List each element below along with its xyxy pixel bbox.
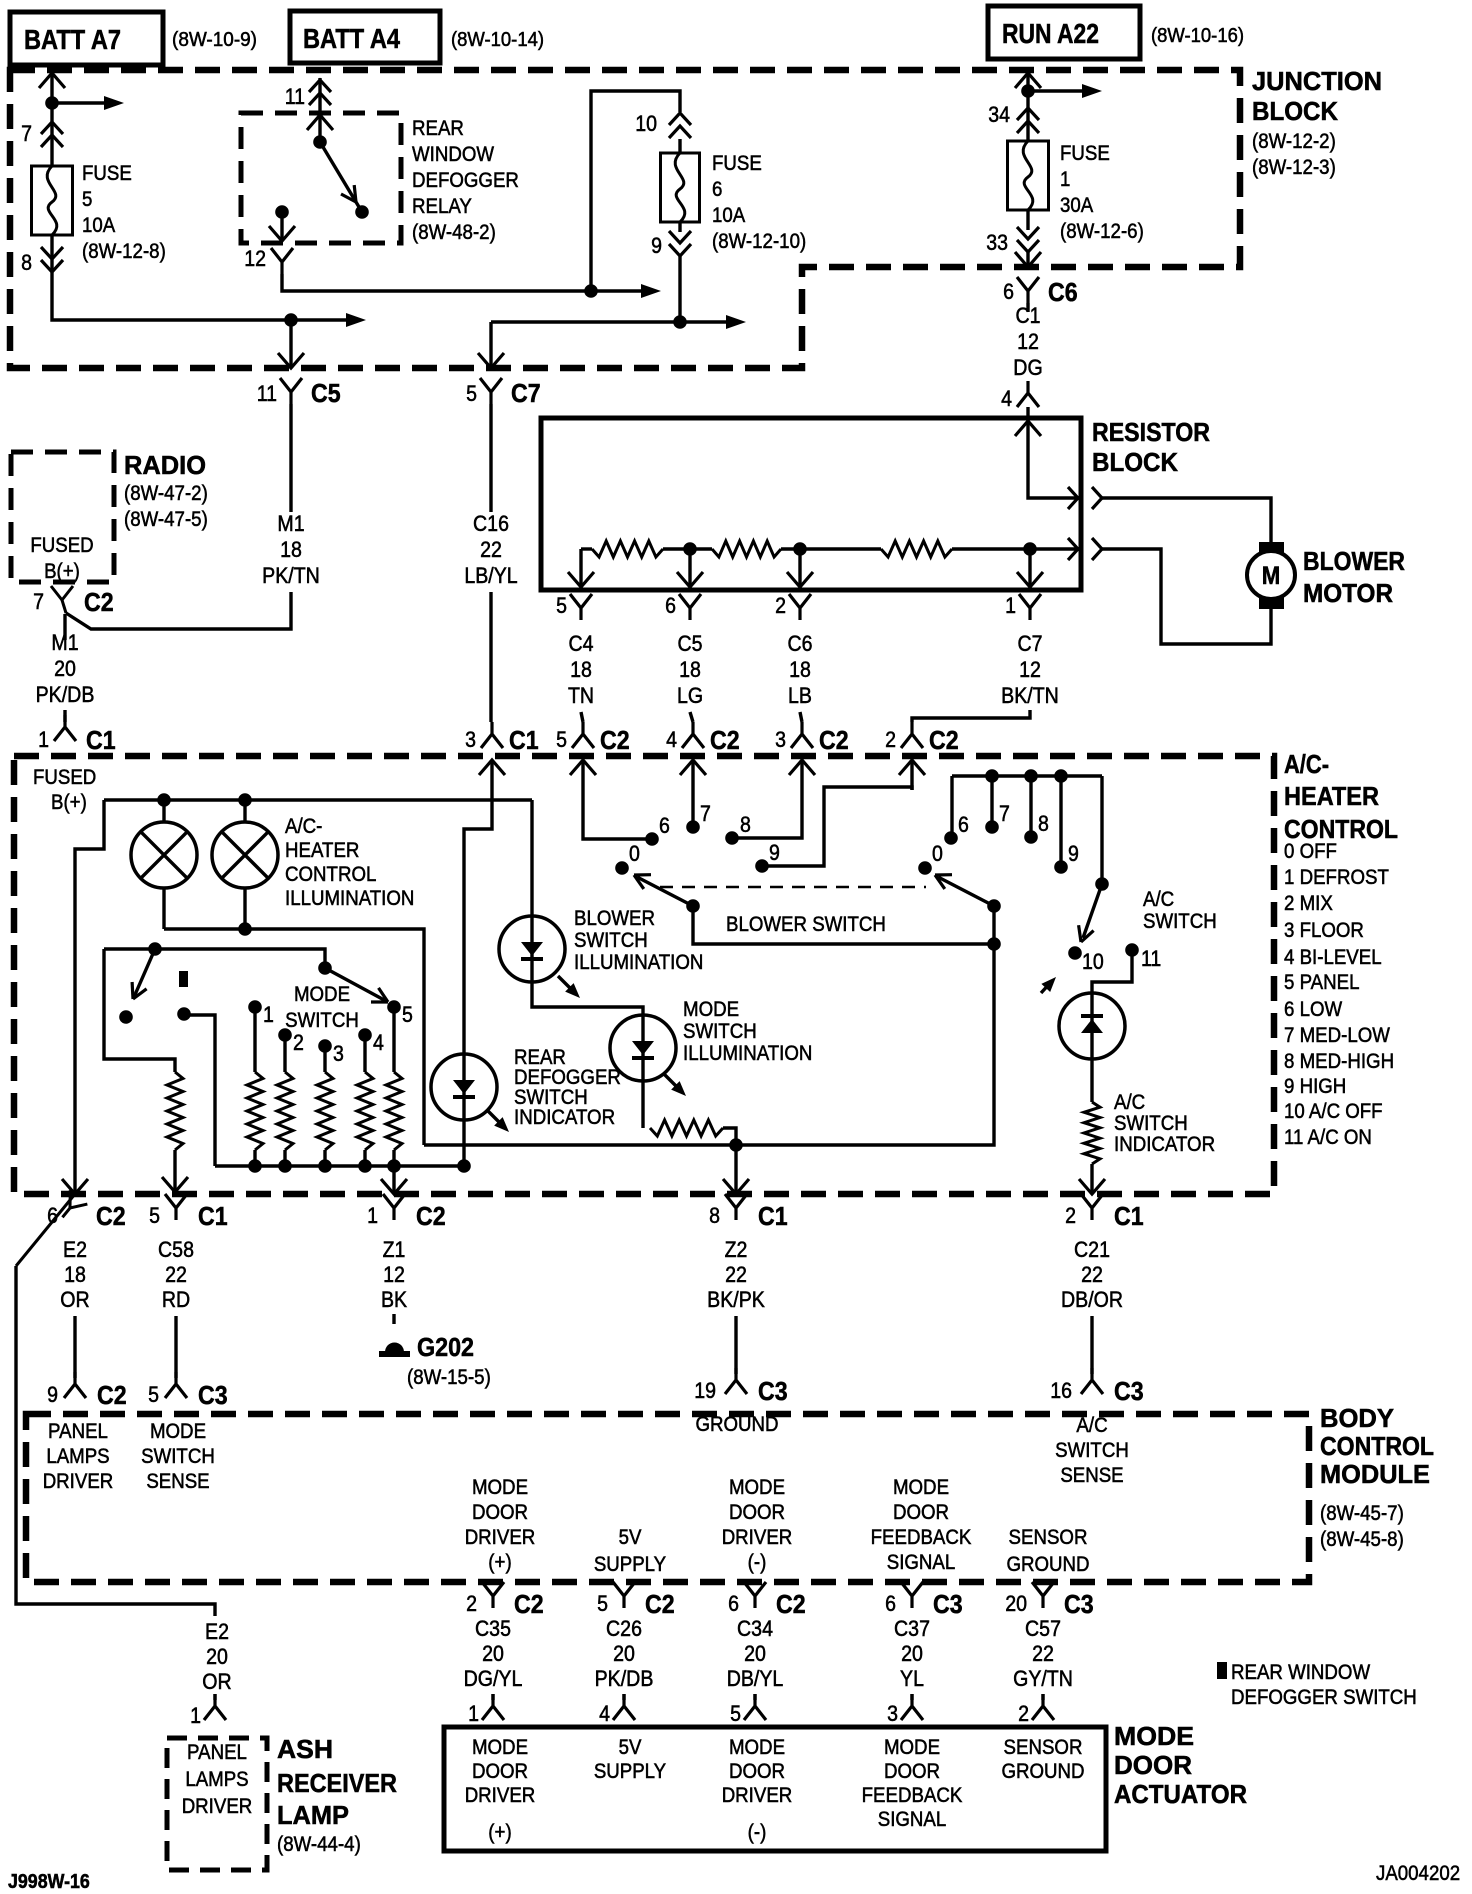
- svg-text:A/C: A/C: [1143, 888, 1174, 911]
- defogger switch arm: [134, 949, 155, 997]
- svg-text:A/C: A/C: [1114, 1091, 1145, 1114]
- A/C switch feed contact: [1095, 877, 1109, 891]
- actuator connector pin 4: [613, 1694, 635, 1720]
- illumination/arm ground bus: [424, 944, 994, 1145]
- connector 1 (ash receiver lamp): [204, 1694, 226, 1720]
- svg-text:18: 18: [280, 537, 302, 562]
- svg-text:BK/TN: BK/TN: [1001, 683, 1059, 708]
- svg-text:1: 1: [1060, 168, 1070, 191]
- switch gang linkage: [660, 886, 926, 889]
- svg-text:SENSOR: SENSOR: [1004, 1736, 1083, 1759]
- svg-text:2: 2: [775, 593, 786, 618]
- svg-text:TN: TN: [568, 683, 594, 708]
- mode switch contact 1: [248, 1000, 262, 1014]
- connector 5 C7: [480, 378, 502, 404]
- svg-text:FUSE: FUSE: [1060, 142, 1110, 165]
- connector pin 6: [679, 594, 701, 620]
- svg-text:DB/YL: DB/YL: [727, 1666, 784, 1691]
- svg-text:C34: C34: [737, 1616, 773, 1641]
- svg-text:6: 6: [665, 593, 676, 618]
- A/C-heater control dashed box: [14, 756, 1274, 1194]
- svg-text:HEATER: HEATER: [285, 839, 359, 862]
- svg-text:OR: OR: [202, 1669, 231, 1694]
- svg-text:PK/DB: PK/DB: [36, 682, 95, 707]
- svg-text:DRIVER: DRIVER: [43, 1470, 114, 1493]
- svg-text:(8W-12-8): (8W-12-8): [82, 240, 166, 263]
- svg-text:DRIVER: DRIVER: [465, 1526, 536, 1549]
- svg-text:22: 22: [1032, 1641, 1054, 1666]
- svg-text:1: 1: [190, 1703, 201, 1728]
- blower switch arm pivot: [686, 899, 700, 913]
- wire from RUN A22 into junction block: [1015, 73, 1041, 88]
- svg-text:22: 22: [725, 1262, 747, 1287]
- svg-text:MODE: MODE: [683, 998, 739, 1021]
- resistor R-high: [881, 541, 952, 557]
- svg-text:RUN A22: RUN A22: [1002, 18, 1099, 49]
- connector pin 5: [570, 594, 592, 620]
- svg-text:SWITCH: SWITCH: [1143, 910, 1217, 933]
- svg-text:(8W-47-5): (8W-47-5): [124, 508, 208, 531]
- svg-text:2 MIX: 2 MIX: [1284, 892, 1333, 915]
- svg-text:3: 3: [333, 1041, 344, 1066]
- wire to panel lamps driver exit: [75, 800, 104, 1192]
- svg-text:B(+): B(+): [51, 791, 87, 814]
- wire LB/YL illumination feed down left side: [464, 790, 492, 1166]
- svg-text:(8W-12-10): (8W-12-10): [712, 230, 806, 253]
- svg-text:SWITCH: SWITCH: [1055, 1439, 1129, 1462]
- svg-text:4: 4: [599, 1701, 610, 1726]
- A/C indicator resistor: [1084, 1102, 1100, 1164]
- svg-text:10A: 10A: [82, 214, 115, 237]
- svg-text:BLOWER: BLOWER: [574, 907, 655, 930]
- svg-text:C37: C37: [894, 1616, 930, 1641]
- fuse 1 30A: [1008, 141, 1049, 210]
- svg-text:C2: C2: [97, 1380, 127, 1410]
- stub wires to A/C heater connectors: [581, 712, 583, 722]
- svg-text:FUSE: FUSE: [82, 162, 132, 185]
- svg-text:4: 4: [666, 727, 677, 752]
- mode switch contact 2: [278, 1028, 292, 1042]
- svg-text:DEFOGGER SWITCH: DEFOGGER SWITCH: [1231, 1686, 1417, 1709]
- svg-text:(8W-10-14): (8W-10-14): [451, 29, 544, 51]
- wire 4 C2 to contact 7: [691, 790, 694, 827]
- svg-text:C4: C4: [569, 631, 594, 656]
- svg-text:C7: C7: [511, 378, 541, 408]
- svg-text:M: M: [1262, 562, 1281, 590]
- mode door actuator box: [444, 1727, 1106, 1851]
- svg-text:Z1: Z1: [383, 1237, 406, 1262]
- lamp 2 tap: [238, 793, 252, 807]
- pin 4 entry arrow: [1015, 421, 1041, 436]
- svg-text:E2: E2: [63, 1237, 87, 1262]
- svg-text:B(+): B(+): [44, 560, 80, 583]
- wire M1 20 PK/DB: [63, 614, 66, 640]
- svg-text:C7: C7: [1018, 631, 1043, 656]
- svg-text:8: 8: [1038, 811, 1049, 836]
- svg-text:PK/TN: PK/TN: [262, 563, 320, 588]
- connector 2 C2: [901, 722, 923, 748]
- svg-text:33: 33: [986, 230, 1008, 255]
- svg-text:FUSE: FUSE: [712, 152, 762, 175]
- svg-text:5: 5: [148, 1382, 159, 1407]
- blower switch right contact 7: [985, 820, 999, 834]
- blower switch contact 9: [755, 859, 769, 873]
- A/C switch indicator LED: [1059, 993, 1125, 1059]
- connector 19 C3: [725, 1368, 747, 1394]
- svg-text:4: 4: [1001, 386, 1012, 411]
- svg-text:C2: C2: [776, 1589, 806, 1619]
- svg-text:ASH: ASH: [277, 1734, 333, 1764]
- svg-text:18: 18: [679, 657, 701, 682]
- svg-text:BODY: BODY: [1320, 1403, 1394, 1433]
- illumination lamp 1: [131, 822, 197, 888]
- connector 4 (resistor block): [1017, 381, 1039, 407]
- svg-text:1 DEFROST: 1 DEFROST: [1284, 866, 1389, 889]
- junction illumination ground: [729, 1138, 743, 1152]
- right pole common bus: [952, 774, 1102, 777]
- svg-text:MODE: MODE: [150, 1420, 206, 1443]
- svg-text:10 A/C OFF: 10 A/C OFF: [1284, 1100, 1383, 1123]
- mode switch feed bus: [104, 949, 325, 968]
- svg-text:FUSED: FUSED: [33, 766, 96, 789]
- junction to connector C5: [284, 313, 298, 327]
- connector pin 12: [271, 248, 293, 274]
- svg-text:MODULE: MODULE: [1320, 1459, 1430, 1489]
- svg-text:C57: C57: [1025, 1616, 1061, 1641]
- svg-text:8: 8: [709, 1203, 720, 1228]
- connector pin 2: [789, 594, 811, 620]
- svg-text:(8W-12-3): (8W-12-3): [1252, 156, 1336, 179]
- defogger switch pivot: [148, 942, 162, 956]
- right arm pivot: [987, 899, 1001, 913]
- rear window defogger switch legend: [1217, 1662, 1227, 1679]
- blower switch contact 7: [686, 820, 700, 834]
- svg-text:9: 9: [47, 1382, 58, 1407]
- svg-text:DOOR: DOOR: [1114, 1750, 1192, 1780]
- blower switch contact 8: [725, 831, 739, 845]
- body control module dashed box: [26, 1414, 1309, 1582]
- svg-text:11 A/C ON: 11 A/C ON: [1284, 1126, 1372, 1149]
- svg-text:SENSOR: SENSOR: [1009, 1526, 1088, 1549]
- junction node on RUN A22 feed: [1021, 84, 1035, 98]
- svg-text:(8W-47-2): (8W-47-2): [124, 482, 208, 505]
- svg-text:34: 34: [988, 102, 1010, 127]
- svg-text:6: 6: [728, 1591, 739, 1616]
- svg-text:YL: YL: [900, 1666, 924, 1691]
- svg-text:3: 3: [887, 1701, 898, 1726]
- connector 6 C2: [744, 1582, 766, 1608]
- svg-text:MODE: MODE: [729, 1736, 785, 1759]
- blower switch contact 0: [615, 861, 629, 875]
- svg-text:C2: C2: [416, 1201, 446, 1231]
- connector 16 C3: [1081, 1368, 1103, 1394]
- svg-text:6: 6: [659, 813, 670, 838]
- svg-text:FEEDBACK: FEEDBACK: [862, 1784, 963, 1807]
- mode switch illumination LED: [610, 1015, 676, 1081]
- defogger switch contact 2: [177, 1007, 191, 1021]
- svg-text:6 LOW: 6 LOW: [1284, 998, 1342, 1021]
- svg-text:20: 20: [54, 656, 76, 681]
- svg-text:RELAY: RELAY: [412, 195, 472, 218]
- blower motor terminal top: [1259, 542, 1284, 554]
- svg-text:Z2: Z2: [725, 1237, 748, 1262]
- svg-text:MODE: MODE: [884, 1736, 940, 1759]
- fuse 6 10A: [661, 153, 700, 222]
- wire E2 20 OR to ash receiver lamp: [16, 1266, 215, 1616]
- blower resistor chain: [581, 547, 592, 550]
- svg-text:C26: C26: [606, 1616, 642, 1641]
- svg-text:5: 5: [556, 727, 567, 752]
- tap M1: [683, 542, 697, 556]
- svg-text:(8W-44-4): (8W-44-4): [277, 1833, 361, 1856]
- mode resistor 3: [317, 1072, 333, 1150]
- junction node on BATT A7 feed: [45, 96, 59, 110]
- svg-text:10: 10: [1082, 949, 1104, 974]
- svg-text:C3: C3: [1064, 1589, 1094, 1619]
- svg-text:20: 20: [206, 1644, 228, 1669]
- svg-text:19: 19: [694, 1378, 716, 1403]
- junction to fuse 6: [584, 284, 598, 298]
- svg-text:BK/PK: BK/PK: [707, 1287, 765, 1312]
- svg-text:C1: C1: [509, 725, 539, 755]
- svg-text:C1: C1: [86, 725, 116, 755]
- svg-text:PANEL: PANEL: [48, 1420, 108, 1443]
- mode resistor 4: [357, 1072, 373, 1150]
- connector 8 C1: [725, 1194, 747, 1220]
- svg-text:7: 7: [999, 801, 1010, 826]
- defogger switch contact: [119, 1010, 133, 1024]
- svg-text:SENSE: SENSE: [1060, 1464, 1123, 1487]
- svg-text:(-): (-): [748, 1821, 767, 1844]
- wire pin4 to blower feed output: [1028, 421, 1081, 498]
- branch arrow to other circuits: [52, 101, 104, 104]
- svg-text:DG: DG: [1013, 355, 1042, 380]
- svg-text:30A: 30A: [1060, 194, 1093, 217]
- A/C switch arm: [1083, 884, 1102, 938]
- svg-text:RADIO: RADIO: [124, 450, 206, 480]
- wire M1 18 PK/TN from C5 to radio branch: [289, 404, 292, 512]
- entry arrows inside box top border: [479, 760, 505, 775]
- indicator pointer arrow: [487, 1110, 505, 1128]
- connector 5 C3: [165, 1372, 187, 1398]
- svg-text:SWITCH: SWITCH: [683, 1020, 757, 1043]
- wire to connector C7: [491, 320, 726, 323]
- inline connector pin 34: [1017, 108, 1039, 120]
- svg-text:INDICATOR: INDICATOR: [514, 1106, 615, 1129]
- svg-text:7: 7: [700, 801, 711, 826]
- svg-text:1: 1: [1005, 593, 1016, 618]
- svg-text:JA004202: JA004202: [1376, 1862, 1460, 1885]
- svg-text:LAMP: LAMP: [277, 1800, 349, 1830]
- svg-text:3: 3: [465, 727, 476, 752]
- ground G202: [385, 1343, 404, 1353]
- illumination dropping resistor: [650, 1120, 723, 1136]
- svg-text:8: 8: [740, 812, 751, 837]
- wire 5 C2 to contact 6: [583, 790, 652, 839]
- output connector chevrons lo: [1068, 538, 1078, 560]
- svg-text:(-): (-): [748, 1551, 767, 1574]
- svg-text:LB: LB: [788, 683, 812, 708]
- svg-text:7 MED-LOW: 7 MED-LOW: [1284, 1024, 1390, 1047]
- blower switch right contact 0: [918, 861, 932, 875]
- svg-text:M1: M1: [277, 511, 304, 536]
- svg-text:DRIVER: DRIVER: [465, 1784, 536, 1807]
- svg-text:(8W-10-9): (8W-10-9): [172, 29, 257, 51]
- blower motor: [1247, 551, 1295, 599]
- svg-text:C6: C6: [1048, 277, 1078, 307]
- svg-text:2: 2: [1018, 1701, 1029, 1726]
- fuse 5 10A: [32, 166, 73, 235]
- svg-text:12: 12: [383, 1262, 405, 1287]
- inline connector pin 9: [669, 244, 691, 256]
- svg-text:GROUND: GROUND: [695, 1413, 778, 1436]
- blower switch illumination LED: [532, 800, 643, 1128]
- connector 6 C6: [1017, 277, 1039, 303]
- A/C switch contact 10: [1068, 946, 1082, 960]
- svg-text:1: 1: [38, 727, 49, 752]
- resistor block box: [541, 418, 1081, 590]
- svg-text:1: 1: [468, 1701, 479, 1726]
- svg-text:12: 12: [1019, 657, 1041, 682]
- svg-text:C1: C1: [1016, 303, 1041, 328]
- mode switch pivot: [318, 961, 332, 975]
- svg-text:C3: C3: [1114, 1376, 1144, 1406]
- svg-text:11: 11: [1141, 946, 1161, 971]
- svg-text:4: 4: [373, 1030, 384, 1055]
- wire defogger contact to ground bus: [184, 1015, 215, 1166]
- power source box RUN A22: [988, 6, 1140, 59]
- svg-text:PANEL: PANEL: [187, 1741, 247, 1764]
- svg-text:RESISTOR: RESISTOR: [1092, 417, 1210, 447]
- svg-text:PK/DB: PK/DB: [595, 1666, 654, 1691]
- svg-text:C3: C3: [198, 1380, 228, 1410]
- svg-text:DOOR: DOOR: [472, 1760, 528, 1783]
- svg-text:SWITCH: SWITCH: [574, 929, 648, 952]
- mode resistor 5: [386, 1072, 402, 1150]
- svg-text:DB/OR: DB/OR: [1061, 1287, 1123, 1312]
- svg-text:E2: E2: [205, 1619, 229, 1644]
- inline connector pin 10: [669, 113, 691, 125]
- relay fixed contact: [313, 135, 327, 149]
- connector 2 C2: [482, 1582, 504, 1608]
- tap M2: [793, 542, 807, 556]
- svg-text:5: 5: [597, 1591, 608, 1616]
- mode switch sense resistor: [167, 1072, 183, 1150]
- svg-text:C2: C2: [96, 1201, 126, 1231]
- svg-text:INDICATOR: INDICATOR: [1114, 1133, 1215, 1156]
- connector 6 C2 (angled): [54, 1190, 87, 1224]
- svg-text:DOOR: DOOR: [729, 1760, 785, 1783]
- svg-text:SIGNAL: SIGNAL: [878, 1808, 947, 1831]
- inline connector pin 8: [41, 260, 63, 272]
- svg-text:SWITCH: SWITCH: [285, 1009, 359, 1032]
- illumination feed bus: [104, 798, 532, 801]
- svg-text:C5: C5: [311, 378, 341, 408]
- svg-text:5: 5: [730, 1701, 741, 1726]
- wire C16 22 LB/YL from C7 down: [489, 404, 492, 512]
- svg-text:C2: C2: [819, 725, 849, 755]
- svg-text:BATT A4: BATT A4: [303, 23, 400, 54]
- branch arrow: [1028, 89, 1082, 92]
- svg-text:SIGNAL: SIGNAL: [887, 1551, 956, 1574]
- wire 2 C2 to contact 9: [762, 787, 912, 866]
- ground exit to 1 C2: [392, 1166, 395, 1192]
- svg-text:DOOR: DOOR: [893, 1501, 949, 1524]
- connector 6 C3: [901, 1582, 923, 1608]
- svg-text:20: 20: [901, 1641, 923, 1666]
- svg-text:9: 9: [769, 840, 780, 865]
- radio box: [11, 452, 114, 582]
- svg-text:SUPPLY: SUPPLY: [594, 1760, 666, 1783]
- svg-text:DRIVER: DRIVER: [722, 1526, 793, 1549]
- svg-text:5 PANEL: 5 PANEL: [1284, 971, 1360, 994]
- tap common: [1023, 542, 1037, 556]
- connector 1 C1: [54, 715, 76, 741]
- svg-text:FEEDBACK: FEEDBACK: [871, 1526, 972, 1549]
- svg-text:OR: OR: [60, 1287, 89, 1312]
- lamp 1 tap: [157, 793, 171, 807]
- svg-text:18: 18: [570, 657, 592, 682]
- svg-text:2: 2: [885, 727, 896, 752]
- svg-text:18: 18: [789, 657, 811, 682]
- wire to blower motor -: [1102, 549, 1271, 644]
- svg-text:7: 7: [21, 121, 32, 146]
- blower switch contact 6: [645, 832, 659, 846]
- svg-text:C2: C2: [929, 725, 959, 755]
- power source box BATT A4: [290, 11, 440, 63]
- wire up-over to fuse 6: [591, 91, 680, 291]
- blower switch right contact 8: [1024, 830, 1038, 844]
- svg-text:6: 6: [712, 178, 722, 201]
- svg-text:22: 22: [165, 1262, 187, 1287]
- connector 5 C1: [165, 1194, 187, 1220]
- svg-text:(8W-10-16): (8W-10-16): [1151, 25, 1244, 47]
- svg-text:(8W-12-2): (8W-12-2): [1252, 130, 1336, 153]
- svg-text:G202: G202: [417, 1332, 474, 1362]
- lamps return bus: [164, 929, 424, 1145]
- jog wire BK/TN to 2 C2: [912, 710, 1030, 722]
- svg-text:SWITCH: SWITCH: [141, 1445, 215, 1468]
- svg-text:WINDOW: WINDOW: [412, 143, 494, 166]
- svg-text:DRIVER: DRIVER: [182, 1795, 253, 1818]
- relay arm end: [355, 205, 369, 219]
- svg-text:3 FLOOR: 3 FLOOR: [1284, 919, 1364, 942]
- mode switch ground bus: [215, 1164, 464, 1167]
- svg-text:5V: 5V: [619, 1526, 642, 1549]
- svg-text:5: 5: [556, 593, 567, 618]
- svg-text:LAMPS: LAMPS: [46, 1445, 109, 1468]
- svg-text:MODE: MODE: [294, 983, 350, 1006]
- svg-text:C6: C6: [788, 631, 813, 656]
- svg-text:DG/YL: DG/YL: [464, 1666, 523, 1691]
- svg-text:20: 20: [744, 1641, 766, 1666]
- svg-text:C16: C16: [473, 511, 509, 536]
- actuator connector pin 5: [744, 1694, 766, 1720]
- svg-text:BLOCK: BLOCK: [1092, 447, 1178, 477]
- actuation pointer arrow: [1041, 981, 1052, 993]
- output connector chevrons hi: [1068, 487, 1078, 509]
- svg-text:C2: C2: [645, 1589, 675, 1619]
- svg-text:LAMPS: LAMPS: [185, 1768, 248, 1791]
- svg-text:C3: C3: [758, 1376, 788, 1406]
- svg-text:8: 8: [21, 250, 32, 275]
- svg-text:ILLUMINATION: ILLUMINATION: [285, 887, 414, 910]
- svg-text:MODE: MODE: [1114, 1721, 1194, 1751]
- svg-text:BATT A7: BATT A7: [24, 24, 121, 55]
- connector 3 C2: [791, 722, 813, 748]
- svg-text:(8W-45-8): (8W-45-8): [1320, 1528, 1404, 1551]
- svg-text:3: 3: [775, 727, 786, 752]
